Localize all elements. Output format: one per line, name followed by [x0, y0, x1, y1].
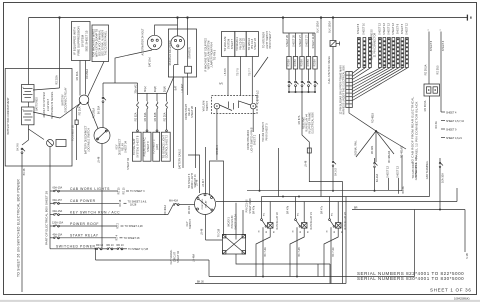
svg-text:THE CENTER PANEL: THE CENTER PANEL: [105, 30, 108, 55]
svg-text:KEY SWITCH RUN / ACC: KEY SWITCH RUN / ACC: [70, 210, 120, 214]
svg-text:BR 47a: BR 47a: [253, 205, 256, 214]
svg-text:RD 3A: RD 3A: [435, 121, 438, 129]
svg-text:TO SHEET 26 UN-SWITCHED ELE: TO SHEET 26 UN-SWITCHED ELECTRICAL BOX P…: [17, 179, 21, 277]
svg-text:RD 64B: RD 64B: [154, 112, 157, 121]
svg-text:PIN 9 SHEET 5: PIN 9 SHEET 5: [265, 123, 268, 141]
svg-text:SHEET 4: SHEET 4: [442, 40, 445, 51]
svg-text:2-12 VOLT: 2-12 VOLT: [47, 99, 50, 112]
svg-text:RD 401: RD 401: [188, 205, 191, 214]
svg-text:SHEET 13: SHEET 13: [388, 23, 391, 35]
svg-text:BATTERY BOX COMPARTMENT: BATTERY BOX COMPARTMENT: [7, 97, 10, 135]
svg-text:SYSTEM, SHEET 8: SYSTEM, SHEET 8: [137, 135, 140, 158]
svg-text:BATTERY CABLE: BATTERY CABLE: [178, 149, 181, 169]
svg-text:LB 46: LB 46: [305, 160, 308, 167]
svg-text:LB 46: LB 46: [196, 179, 199, 186]
svg-text:60A-15A: 60A-15A: [53, 210, 63, 213]
svg-text:TO SHEET 4,28: TO SHEET 4,28: [125, 225, 144, 228]
svg-text:LOCKABLE SWITCH: LOCKABLE SWITCH: [88, 128, 91, 152]
svg-text:STARTER SOLENOID: STARTER SOLENOID: [169, 40, 172, 65]
svg-text:SHEET 26: SHEET 26: [293, 35, 296, 47]
svg-text:RD 481B: RD 481B: [372, 113, 375, 123]
svg-text:SHEET 6: SHEET 6: [357, 23, 360, 34]
svg-text:RD 291A: RD 291A: [86, 69, 89, 79]
svg-text:BAT (B+): BAT (B+): [149, 57, 152, 67]
svg-text:SHEET 28: SHEET 28: [191, 106, 194, 118]
svg-text:RD 20A: RD 20A: [163, 112, 166, 121]
svg-text:30(A): 30(A): [163, 86, 166, 92]
svg-text:RD 16: RD 16: [119, 199, 122, 207]
svg-text:BK 26: BK 26: [23, 168, 26, 175]
svg-text:SHEET 4: SHEET 4: [446, 112, 457, 115]
svg-text:POWER ROOF: POWER ROOF: [70, 222, 99, 226]
svg-text:STARTER: STARTER: [189, 47, 192, 59]
svg-text:SHEET 2: SHEET 2: [254, 134, 257, 145]
svg-text:SHEET 13: SHEET 13: [383, 23, 386, 35]
svg-text:SHEET 9: SHEET 9: [147, 141, 150, 152]
svg-text:SHEET 27: SHEET 27: [306, 35, 309, 47]
svg-text:PANEL SH 9: PANEL SH 9: [415, 162, 418, 177]
svg-text:SHEET 23: SHEET 23: [254, 38, 257, 50]
svg-text:START RELAY: START RELAY: [70, 234, 99, 238]
svg-text:BK 7-4B: BK 7-4B: [298, 247, 301, 257]
svg-text:RD 39,5A: RD 39,5A: [425, 64, 428, 75]
svg-text:RD 10: RD 10: [107, 244, 115, 247]
svg-text:SHEET 4,5,7,10: SHEET 4,5,7,10: [446, 120, 465, 123]
svg-text:31 PIN CONNECTOR: 31 PIN CONNECTOR: [374, 33, 377, 58]
svg-text:BR 47c: BR 47c: [321, 205, 324, 214]
svg-text:RD 39,5: RD 39,5: [437, 65, 440, 75]
svg-text:MA-42A: MA-42A: [169, 200, 178, 203]
svg-text:SHEET 7: SHEET 7: [231, 38, 234, 49]
svg-text:RD 67A: RD 67A: [298, 115, 301, 124]
svg-text:T0-D19: T0-D19: [218, 228, 221, 237]
svg-text:60A-15A: 60A-15A: [53, 187, 63, 190]
svg-text:SHEET 6: SHEET 6: [397, 23, 400, 34]
svg-text:SERIAL NUMBERS 822*4001 TO: SERIAL NUMBERS 822*4001 TO 822*5000: [357, 271, 464, 276]
svg-text:RD 481: RD 481: [371, 145, 374, 154]
svg-text:RD 10: RD 10: [96, 244, 104, 247]
svg-text:TO SHEET 28: TO SHEET 28: [72, 124, 75, 140]
svg-text:RD 4: RD 4: [116, 234, 119, 240]
svg-text:BR 47b: BR 47b: [287, 205, 290, 214]
svg-text:RD 30A: RD 30A: [76, 71, 79, 80]
svg-text:SERIAL NUMBERS 830*4001 TO: SERIAL NUMBERS 830*4001 TO 830*5000: [357, 276, 464, 281]
svg-text:TO SHEET 3,7,28: TO SHEET 3,7,28: [128, 248, 149, 251]
svg-text:SHEET 26: SHEET 26: [286, 35, 289, 47]
svg-text:SHEET 1 OF 36: SHEET 1 OF 36: [430, 287, 472, 292]
svg-text:BAT: BAT: [175, 85, 178, 90]
svg-text:SWITCH: SWITCH: [206, 101, 209, 111]
svg-text:9A-10A: 9A-10A: [376, 174, 379, 183]
svg-text:PANEL 12 PIN CONNECTOR BLACK: PANEL 12 PIN CONNECTOR BLACK: [415, 101, 419, 158]
svg-text:RD 10: RD 10: [117, 244, 125, 247]
svg-text:LB 417: LB 417: [202, 178, 205, 187]
svg-text:RELAY: RELAY: [205, 200, 208, 208]
svg-text:CAB TERMINAL: CAB TERMINAL: [426, 160, 429, 179]
svg-text:SWITCHED POWER: SWITCHED POWER: [56, 245, 96, 249]
svg-text:BLK 10GA: BLK 10GA: [317, 21, 320, 33]
svg-text:SHEET 5: SHEET 5: [401, 23, 404, 34]
svg-text:RD 291A: RD 291A: [93, 108, 96, 118]
svg-text:RD 52A: RD 52A: [134, 112, 137, 121]
svg-text:LB 46: LB 46: [98, 156, 101, 163]
svg-text:SHEET 34: SHEET 34: [127, 158, 130, 170]
svg-text:SHEET 13: SHEET 13: [387, 166, 390, 178]
svg-text:SHEET 27: SHEET 27: [299, 35, 302, 47]
svg-text:SIGNAL RAIL: SIGNAL RAIL: [355, 140, 358, 156]
svg-text:RD/BK: RD/BK: [294, 59, 297, 67]
svg-text:TO SHEET 3: TO SHEET 3: [130, 190, 145, 193]
svg-text:SHEET 6: SHEET 6: [430, 40, 433, 51]
svg-text:PART OF ELECTRICAL BOX SHEET 2: PART OF ELECTRICAL BOX SHEET 28: [45, 191, 49, 245]
svg-text:BATTERIES: BATTERIES: [36, 97, 39, 111]
svg-text:TO SHEET 28: TO SHEET 28: [124, 237, 140, 240]
svg-text:HARNESS UNDER THE ELECTRICAL: HARNESS UNDER THE ELECTRICAL BOX: [342, 65, 345, 115]
svg-text:120A-15A: 120A-15A: [52, 222, 63, 225]
svg-text:SHEET 12: SHEET 12: [406, 23, 409, 35]
svg-text:BK 7-4A: BK 7-4A: [264, 247, 267, 257]
svg-text:DISCONNECT RELAY: DISCONNECT RELAY: [65, 87, 68, 113]
svg-text:TS 7-7: TS 7-7: [248, 68, 251, 76]
svg-text:SHEET 11,28: SHEET 11,28: [312, 33, 315, 49]
svg-text:LB 9-5: LB 9-5: [224, 68, 227, 76]
svg-text:RD/BK: RD/BK: [288, 59, 291, 67]
svg-text:C-2PD4-1/2: C-2PD4-1/2: [257, 90, 260, 104]
svg-text:BR 3A: BR 3A: [402, 186, 405, 194]
svg-text:(A/C): (A/C): [156, 144, 159, 150]
svg-text:BK 30: BK 30: [197, 280, 204, 283]
svg-text:SHEET 22: SHEET 22: [243, 38, 246, 50]
svg-text:RUN RELAY #3: RUN RELAY #3: [344, 212, 347, 230]
svg-text:RD 15: RD 15: [122, 187, 125, 195]
svg-text:ALTERNATOR 24 VOLT: ALTERNATOR 24 VOLT: [142, 28, 145, 55]
svg-text:RD/BK: RD/BK: [314, 59, 317, 67]
svg-text:SHEET 13: SHEET 13: [397, 166, 400, 178]
svg-text:A/V: A/V: [219, 83, 223, 86]
svg-text:RD 15: RD 15: [118, 187, 121, 195]
svg-text:30(A): 30(A): [154, 86, 157, 92]
svg-text:SHEET 4,6,21: SHEET 4,6,21: [446, 137, 463, 140]
svg-text:ELECTRICAL BOX: ELECTRICAL BOX: [312, 112, 315, 134]
svg-text:BK 9-5: BK 9-5: [17, 143, 20, 151]
svg-text:24 VOLT DC SYSTEM: 24 VOLT DC SYSTEM: [43, 92, 46, 117]
svg-text:RD 30A: RD 30A: [78, 106, 81, 115]
svg-text:S 1/5: S 1/5: [466, 252, 469, 258]
svg-text:SHEET 13: SHEET 13: [392, 23, 395, 35]
svg-text:RD 2: RD 2: [117, 223, 120, 229]
svg-text:SHEET 34: SHEET 34: [125, 141, 128, 153]
svg-text:LB 46A: LB 46A: [193, 254, 196, 263]
svg-text:RUN RELAY #1: RUN RELAY #1: [310, 212, 313, 230]
svg-text:10A-10A: 10A-10A: [442, 173, 445, 183]
svg-text:RD 39,5A: RD 39,5A: [424, 100, 427, 111]
svg-text:60A-157: 60A-157: [53, 199, 63, 202]
svg-text:30(+): 30(+): [144, 86, 147, 92]
svg-text:RD 481A/4: RD 481A/4: [388, 150, 391, 163]
svg-text:LB 46: LB 46: [201, 228, 204, 235]
svg-text:BK 30A: BK 30A: [98, 105, 101, 114]
svg-text:FUEL SHUT OFF VALVE: FUEL SHUT OFF VALVE: [328, 56, 331, 84]
svg-text:SHEET 34: SHEET 34: [177, 251, 180, 263]
svg-text:RD/BK: RD/BK: [307, 59, 310, 67]
svg-text:30(+)A2: 30(+)A2: [134, 84, 137, 94]
svg-text:18,28: 18,28: [130, 204, 137, 207]
svg-text:SHEET 9: SHEET 9: [446, 129, 457, 132]
svg-text:40A-15A: 40A-15A: [53, 233, 63, 236]
svg-text:CONTROL: CONTROL: [202, 198, 204, 209]
svg-text:BATTERIES IN SERIES.: BATTERIES IN SERIES.: [51, 91, 54, 119]
svg-text:RD 2GA: RD 2GA: [55, 75, 58, 85]
svg-text:LR 4G7: LR 4G7: [181, 83, 184, 92]
svg-text:SWITCH: SWITCH: [189, 219, 192, 229]
svg-text:RUN RELAY #2: RUN RELAY #2: [276, 212, 279, 230]
svg-text:RD/BK: RD/BK: [301, 59, 304, 67]
svg-text:SHEET 13: SHEET 13: [379, 23, 382, 35]
svg-text:BK 7-4C: BK 7-4C: [332, 247, 335, 257]
svg-text:BK 5-3: BK 5-3: [335, 168, 338, 176]
svg-text:BR 29-4: BR 29-4: [216, 145, 219, 155]
svg-text:SHEET 10: SHEET 10: [363, 23, 366, 35]
svg-text:10842589(K): 10842589(K): [454, 297, 470, 301]
svg-text:BR: BR: [354, 206, 358, 209]
svg-text:CONTROL SHEET 2: CONTROL SHEET 2: [166, 134, 169, 158]
svg-text:SEE SHEET 15: SEE SHEET 15: [85, 30, 89, 51]
svg-text:TO PIN 5: TO PIN 5: [214, 49, 217, 60]
svg-text:RD 401A: RD 401A: [164, 205, 167, 215]
svg-text:CAB POWER: CAB POWER: [70, 199, 96, 203]
svg-text:BLK 10GA: BLK 10GA: [329, 21, 332, 33]
svg-text:CAB WORK LIGHTS: CAB WORK LIGHTS: [70, 187, 110, 191]
svg-text:RD 34A: RD 34A: [144, 112, 147, 121]
svg-text:TS 7-5: TS 7-5: [237, 68, 240, 76]
svg-text:PIN 9 SHEET 7: PIN 9 SHEET 7: [269, 31, 272, 49]
